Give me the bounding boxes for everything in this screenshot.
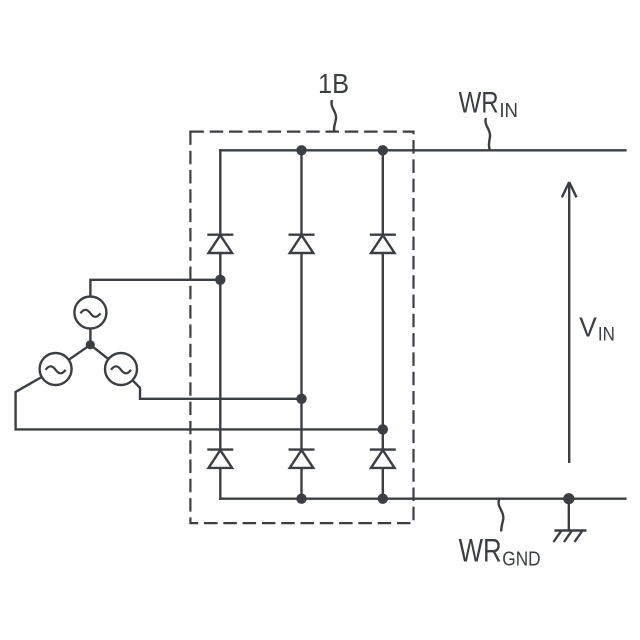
node: bottom rail / leg 2 junction: [296, 494, 306, 504]
label V_IN: [579, 311, 615, 345]
wire: leg 1 lower segment: [219, 468, 221, 500]
diode D6 (leg 3 lower): [370, 450, 396, 468]
svg-text:IN: IN: [598, 325, 615, 346]
wire: leg 2 upper segment: [300, 150, 302, 234]
leader squiggle from WR_IN to top rail: [485, 118, 490, 150]
label WR_IN: [459, 87, 518, 123]
wire: top rail (WR_IN net): [219, 149, 626, 151]
wire: star point to AC3: [90, 345, 108, 359]
ground symbol at WR_GND rail: [554, 499, 587, 542]
wire: leg 3 lower segment: [382, 468, 384, 499]
diode D3 (leg 3 upper): [370, 235, 396, 253]
AC source AC2 (left phase): [40, 353, 72, 385]
wire: leg 2 lower segment: [300, 468, 302, 499]
AC source AC1 (top phase): [74, 297, 106, 329]
wire: leg 2 middle segment: [300, 253, 302, 450]
diode D1 (leg 1 upper): [207, 235, 233, 253]
svg-text:GND: GND: [502, 549, 540, 571]
AC source AC3 (right phase): [105, 353, 137, 385]
wire: leg 1 upper segment: [219, 149, 221, 235]
node: top rail / leg 2 junction: [296, 145, 306, 155]
wire: leg 3 upper segment: [382, 150, 384, 234]
wire: leg 3 middle segment: [382, 253, 384, 450]
node: star point of three-phase source: [86, 340, 95, 349]
svg-text:IN: IN: [499, 100, 518, 122]
node: phase 2 / leg 2 junction: [296, 394, 306, 404]
diode D4 (leg 1 lower): [207, 450, 233, 468]
wire: star point to AC2: [69, 345, 91, 360]
diode D2 (leg 2 upper): [289, 235, 315, 253]
wire: bottom rail (WR_GND net): [219, 498, 626, 500]
svg-text:V: V: [579, 311, 597, 342]
wire: phase 3 from AC2 to leg 3: [16, 377, 383, 429]
node: phase 3 / leg 3 junction: [378, 424, 388, 434]
leader squiggle from WR_GND to bottom rail: [499, 500, 504, 532]
rectifier block 1B dashed boundary: [190, 132, 413, 523]
svg-text:1B: 1B: [318, 68, 349, 99]
leader squiggle from 1B to box: [331, 100, 336, 132]
wire: phase 2 from AC3 to leg 2: [132, 380, 301, 399]
node: top rail / leg 3 junction: [378, 145, 388, 155]
wire: leg 1 middle segment: [219, 253, 221, 450]
svg-text:WR: WR: [459, 533, 502, 569]
node: bottom rail / leg 3 junction: [378, 494, 388, 504]
label WR_GND: [459, 533, 541, 571]
wire: AC1 to star point: [89, 329, 91, 345]
arrow V_IN (pointing up): [562, 182, 577, 463]
node: ground junction on bottom rail: [563, 493, 574, 504]
diode D5 (leg 2 lower): [289, 450, 315, 468]
svg-text:WR: WR: [459, 87, 499, 120]
node: phase 1 / leg 1 junction: [215, 275, 225, 285]
wire: phase 1 from AC1 to leg 1: [90, 280, 220, 297]
